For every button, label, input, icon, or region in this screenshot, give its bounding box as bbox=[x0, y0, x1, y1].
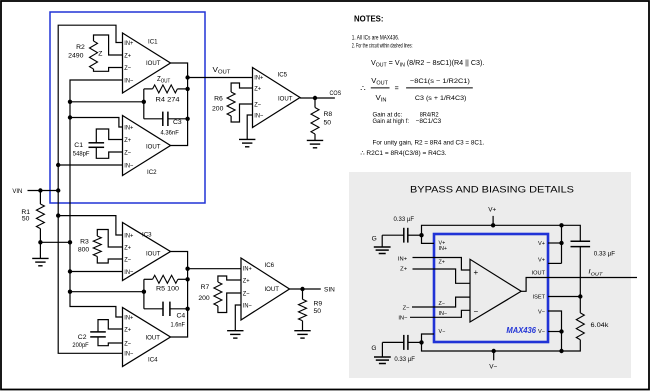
svg-text:200pF: 200pF bbox=[72, 342, 88, 349]
svg-text:V+: V+ bbox=[538, 258, 545, 264]
svg-text:SIN: SIN bbox=[324, 286, 335, 293]
svg-text:R2: R2 bbox=[76, 44, 85, 51]
svg-text:Z+: Z+ bbox=[400, 266, 408, 272]
svg-text:IN+: IN+ bbox=[124, 124, 133, 131]
svg-text:IN+: IN+ bbox=[124, 314, 133, 321]
svg-text:Z−: Z− bbox=[243, 290, 250, 297]
svg-text:2490: 2490 bbox=[68, 52, 84, 59]
svg-text:NOTES:: NOTES: bbox=[354, 14, 384, 23]
svg-text:6.04k: 6.04k bbox=[591, 322, 610, 329]
svg-text:R4 274: R4 274 bbox=[156, 97, 180, 104]
svg-text:200: 200 bbox=[198, 295, 210, 302]
svg-text:Z−: Z− bbox=[124, 149, 131, 156]
svg-text:=: = bbox=[395, 85, 399, 92]
svg-text:50: 50 bbox=[22, 216, 30, 223]
svg-text:IN+: IN+ bbox=[124, 232, 133, 239]
svg-text:IN−: IN− bbox=[124, 269, 133, 276]
svg-text:Z+: Z+ bbox=[254, 85, 261, 92]
svg-text:200: 200 bbox=[212, 106, 224, 113]
svg-text:Z+: Z+ bbox=[124, 52, 131, 59]
svg-text:C2: C2 bbox=[78, 334, 87, 341]
svg-text:V+: V+ bbox=[538, 241, 545, 247]
svg-text:BYPASS AND BIASING DETAILS: BYPASS AND BIASING DETAILS bbox=[410, 184, 574, 195]
svg-text:R7: R7 bbox=[201, 284, 210, 291]
svg-text:0.33 µF: 0.33 µF bbox=[394, 356, 415, 363]
svg-text:1. All ICs are MAX436.: 1. All ICs are MAX436. bbox=[352, 35, 400, 42]
svg-text:IC2: IC2 bbox=[147, 169, 157, 176]
svg-text:Z−: Z− bbox=[124, 340, 131, 347]
svg-text:IOUT: IOUT bbox=[146, 143, 161, 150]
svg-text:Gain at high f:: Gain at high f: bbox=[373, 118, 410, 125]
svg-text:V−: V− bbox=[538, 309, 545, 315]
svg-text:ISET: ISET bbox=[533, 295, 546, 301]
svg-text:IN−: IN− bbox=[124, 162, 133, 169]
svg-text:50: 50 bbox=[314, 308, 322, 315]
svg-text:∴ R2C1 = 8R4(C3/8) = R4C3.: ∴ R2C1 = 8R4(C3/8) = R4C3. bbox=[360, 150, 446, 157]
svg-text:IOUT: IOUT bbox=[265, 286, 280, 293]
svg-text:R5 100: R5 100 bbox=[156, 286, 179, 293]
svg-text:V+: V+ bbox=[488, 206, 496, 213]
svg-text:R6: R6 bbox=[214, 96, 223, 103]
svg-text:IN+: IN+ bbox=[439, 246, 448, 252]
svg-text:IOUT: IOUT bbox=[532, 270, 546, 276]
svg-text:2. For the circuit within dash: 2. For the circuit within dashed lines: bbox=[352, 43, 413, 50]
svg-text:IC4: IC4 bbox=[148, 356, 158, 363]
svg-text:0.33 µF: 0.33 µF bbox=[594, 250, 615, 257]
svg-text:Z−: Z− bbox=[124, 256, 131, 263]
svg-text:Z+: Z+ bbox=[124, 137, 131, 144]
svg-text:+: + bbox=[473, 268, 478, 277]
svg-text:IOUT: IOUT bbox=[146, 250, 161, 257]
svg-text:C4: C4 bbox=[177, 313, 186, 320]
svg-text:4.36nF: 4.36nF bbox=[161, 129, 179, 136]
svg-text:COS: COS bbox=[330, 90, 342, 97]
svg-text:C1: C1 bbox=[74, 142, 83, 149]
svg-text:R3: R3 bbox=[80, 239, 89, 246]
svg-text:VIN: VIN bbox=[12, 188, 22, 195]
svg-text:IN−: IN− bbox=[254, 112, 263, 119]
svg-text:−: − bbox=[473, 307, 478, 316]
svg-text:V−: V− bbox=[538, 329, 545, 335]
svg-text:IOUT: IOUT bbox=[146, 60, 161, 67]
svg-text:Z+: Z+ bbox=[243, 277, 250, 284]
svg-text:IOUT: IOUT bbox=[146, 334, 161, 341]
svg-text:0.33 µF: 0.33 µF bbox=[394, 216, 415, 223]
svg-text:IN+: IN+ bbox=[398, 257, 408, 263]
svg-text:C3 (s + 1/R4C3): C3 (s + 1/R4C3) bbox=[415, 95, 467, 102]
svg-text:548pF: 548pF bbox=[73, 151, 90, 158]
svg-text:IC6: IC6 bbox=[265, 262, 275, 269]
svg-text:Z−: Z− bbox=[439, 301, 445, 307]
svg-text:V−: V− bbox=[439, 329, 446, 335]
svg-text:Z: Z bbox=[98, 50, 102, 57]
svg-text:IC1: IC1 bbox=[148, 38, 158, 45]
svg-text:IN−: IN− bbox=[124, 77, 133, 84]
svg-text:G: G bbox=[371, 345, 376, 352]
svg-text:−8C1/C3: −8C1/C3 bbox=[416, 118, 442, 125]
svg-text:−8C1(s − 1/R2C1): −8C1(s − 1/R2C1) bbox=[410, 78, 470, 85]
svg-text:IN−: IN− bbox=[439, 311, 448, 317]
svg-text:For unity gain, R2 = 8R4 and C: For unity gain, R2 = 8R4 and C3 = 8C1. bbox=[373, 140, 485, 147]
svg-text:IC5: IC5 bbox=[278, 71, 288, 78]
svg-text:Z+: Z+ bbox=[124, 326, 131, 333]
svg-text:MAX436: MAX436 bbox=[506, 325, 536, 335]
svg-text:IN+: IN+ bbox=[124, 40, 133, 47]
svg-text:800: 800 bbox=[78, 247, 90, 254]
svg-text:IN−: IN− bbox=[398, 315, 408, 321]
svg-text:V−: V− bbox=[489, 363, 497, 370]
svg-text:G: G bbox=[372, 235, 377, 242]
svg-text:Z+: Z+ bbox=[124, 244, 131, 251]
svg-text:R8: R8 bbox=[324, 111, 333, 118]
svg-text:IN−: IN− bbox=[124, 351, 133, 358]
svg-text:50: 50 bbox=[324, 119, 332, 126]
svg-text:Z−: Z− bbox=[403, 305, 411, 311]
svg-text:Z−: Z− bbox=[124, 65, 131, 72]
svg-text:R9: R9 bbox=[314, 301, 323, 308]
svg-text:IN+: IN+ bbox=[254, 74, 263, 81]
svg-text:∴: ∴ bbox=[360, 83, 366, 93]
svg-text:Z+: Z+ bbox=[439, 260, 445, 266]
svg-text:IN−: IN− bbox=[243, 302, 252, 309]
svg-text:1.6nF: 1.6nF bbox=[171, 322, 186, 329]
svg-text:Z−: Z− bbox=[254, 101, 261, 108]
svg-text:IC3: IC3 bbox=[142, 231, 152, 238]
svg-text:IOUT: IOUT bbox=[278, 96, 293, 103]
svg-text:IN+: IN+ bbox=[243, 265, 252, 272]
svg-text:C3: C3 bbox=[173, 119, 182, 126]
